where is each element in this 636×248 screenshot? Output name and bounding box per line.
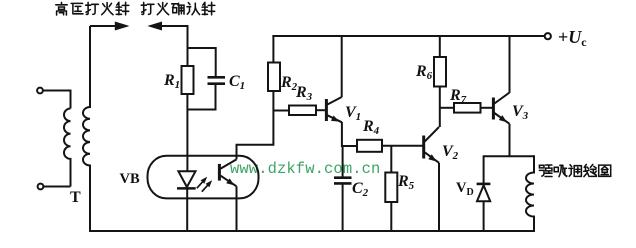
label R1 [163, 72, 180, 91]
svg-text:R5: R5 [397, 173, 415, 192]
resistor R7 [454, 103, 481, 113]
svg-text:C2: C2 [352, 180, 369, 199]
arrowhead ignition-confirm [147, 22, 162, 31]
wire V3 collector [509, 35, 511, 93]
svg-text:R3: R3 [295, 84, 313, 103]
wire R2 top lead [272, 35, 274, 63]
label R6 [415, 63, 433, 82]
label R3 [295, 84, 313, 103]
wire C1 branch bottom [188, 85, 216, 110]
label VB [120, 171, 140, 187]
transformer T secondary winding [83, 26, 90, 231]
svg-text:V1: V1 [345, 104, 361, 123]
transistor V1 [326, 97, 342, 122]
wire VD cathode lead [483, 155, 485, 184]
svg-text:R4: R4 [362, 118, 380, 137]
arrowhead high-voltage igniter [115, 22, 130, 31]
capacitor C1 [208, 77, 226, 83]
svg-text:C1: C1 [229, 73, 245, 92]
wire R6 top lead [439, 35, 441, 57]
wire phototransistor emitter [236, 186, 238, 231]
resistor R5 [385, 173, 397, 203]
label R4 [362, 118, 380, 137]
wire R1 to LED [186, 94, 188, 171]
svg-text:+Uc: +Uc [558, 27, 587, 49]
wire R5 bottom lead [390, 202, 392, 231]
transformer T primary top terminal [37, 88, 43, 94]
svg-text:R1: R1 [163, 72, 180, 91]
svg-text:R6: R6 [415, 63, 433, 82]
wire LED cathode to bottom [186, 189, 188, 231]
wire primary top lead [43, 91, 71, 109]
wire ignition-confirm lead [160, 25, 188, 66]
watermark www.dzkfw.com.cn [230, 160, 380, 178]
wire V2 collector / R6 bottom [439, 87, 441, 128]
label 打火确认针 [141, 2, 215, 15]
wire bottom rail [89, 230, 535, 232]
label R7 [449, 87, 467, 106]
label 高压打火针 [56, 2, 129, 15]
wire V1 emitter [342, 122, 357, 146]
wire R7 to V3 base [481, 107, 493, 109]
wire C2 bottom lead [342, 185, 344, 232]
transistor V2 [424, 127, 439, 163]
wire R7 left lead [440, 107, 454, 109]
label V3 [512, 103, 529, 122]
label C2 [352, 180, 369, 199]
wire primary bottom lead [44, 186, 71, 188]
resistor R2 [268, 63, 280, 92]
capacitor C2 [334, 178, 352, 184]
wire V3 emitter [509, 124, 511, 157]
wire V2 emitter [438, 163, 440, 231]
label T [70, 189, 81, 206]
resistor R4 [357, 140, 382, 152]
phototransistor in VB [219, 159, 236, 186]
svg-text:V2: V2 [442, 143, 459, 162]
svg-text:T: T [70, 189, 81, 206]
wire R5 top lead [390, 146, 392, 173]
light arrow 2 [202, 180, 212, 191]
resistor R1 [182, 66, 194, 94]
label V1 [345, 104, 361, 123]
wire load top [484, 155, 534, 157]
optocoupler VB body [148, 156, 259, 199]
LED in VB [177, 171, 196, 188]
wire VD anode lead [483, 201, 485, 231]
transformer T primary winding [64, 109, 71, 187]
transistor V3 [493, 93, 509, 124]
label R5 [397, 173, 415, 192]
wire C1 branch top [188, 48, 216, 76]
resistor R6 [434, 57, 446, 87]
svg-text:V3: V3 [512, 103, 529, 122]
svg-text:VB: VB [120, 171, 140, 187]
wire high-voltage igniter lead [90, 25, 116, 27]
resistor R3 [289, 106, 316, 116]
svg-text:R7: R7 [449, 87, 467, 106]
wire R4 to V2 base [382, 145, 423, 147]
wire C2 top lead [342, 146, 344, 177]
svg-text:VD: VD [456, 180, 474, 198]
label 强吸阀线圈 [539, 164, 610, 176]
label C1 [229, 73, 245, 92]
wire phototransistor collector [237, 92, 274, 159]
terminal +Uc circle [545, 33, 551, 39]
label R2 [280, 74, 298, 93]
transformer T primary bottom terminal [38, 184, 44, 190]
wire V1 collector [341, 35, 343, 97]
light arrow 1 [197, 177, 207, 188]
diode VD [477, 184, 491, 201]
label VD [456, 180, 474, 198]
wire R3 to V1 base [316, 109, 325, 111]
label V2 [442, 143, 459, 162]
wire top +Uc rail [272, 35, 545, 37]
wire R3 left lead [273, 110, 289, 112]
inductor coil [526, 155, 534, 231]
label +Uc [558, 27, 587, 49]
